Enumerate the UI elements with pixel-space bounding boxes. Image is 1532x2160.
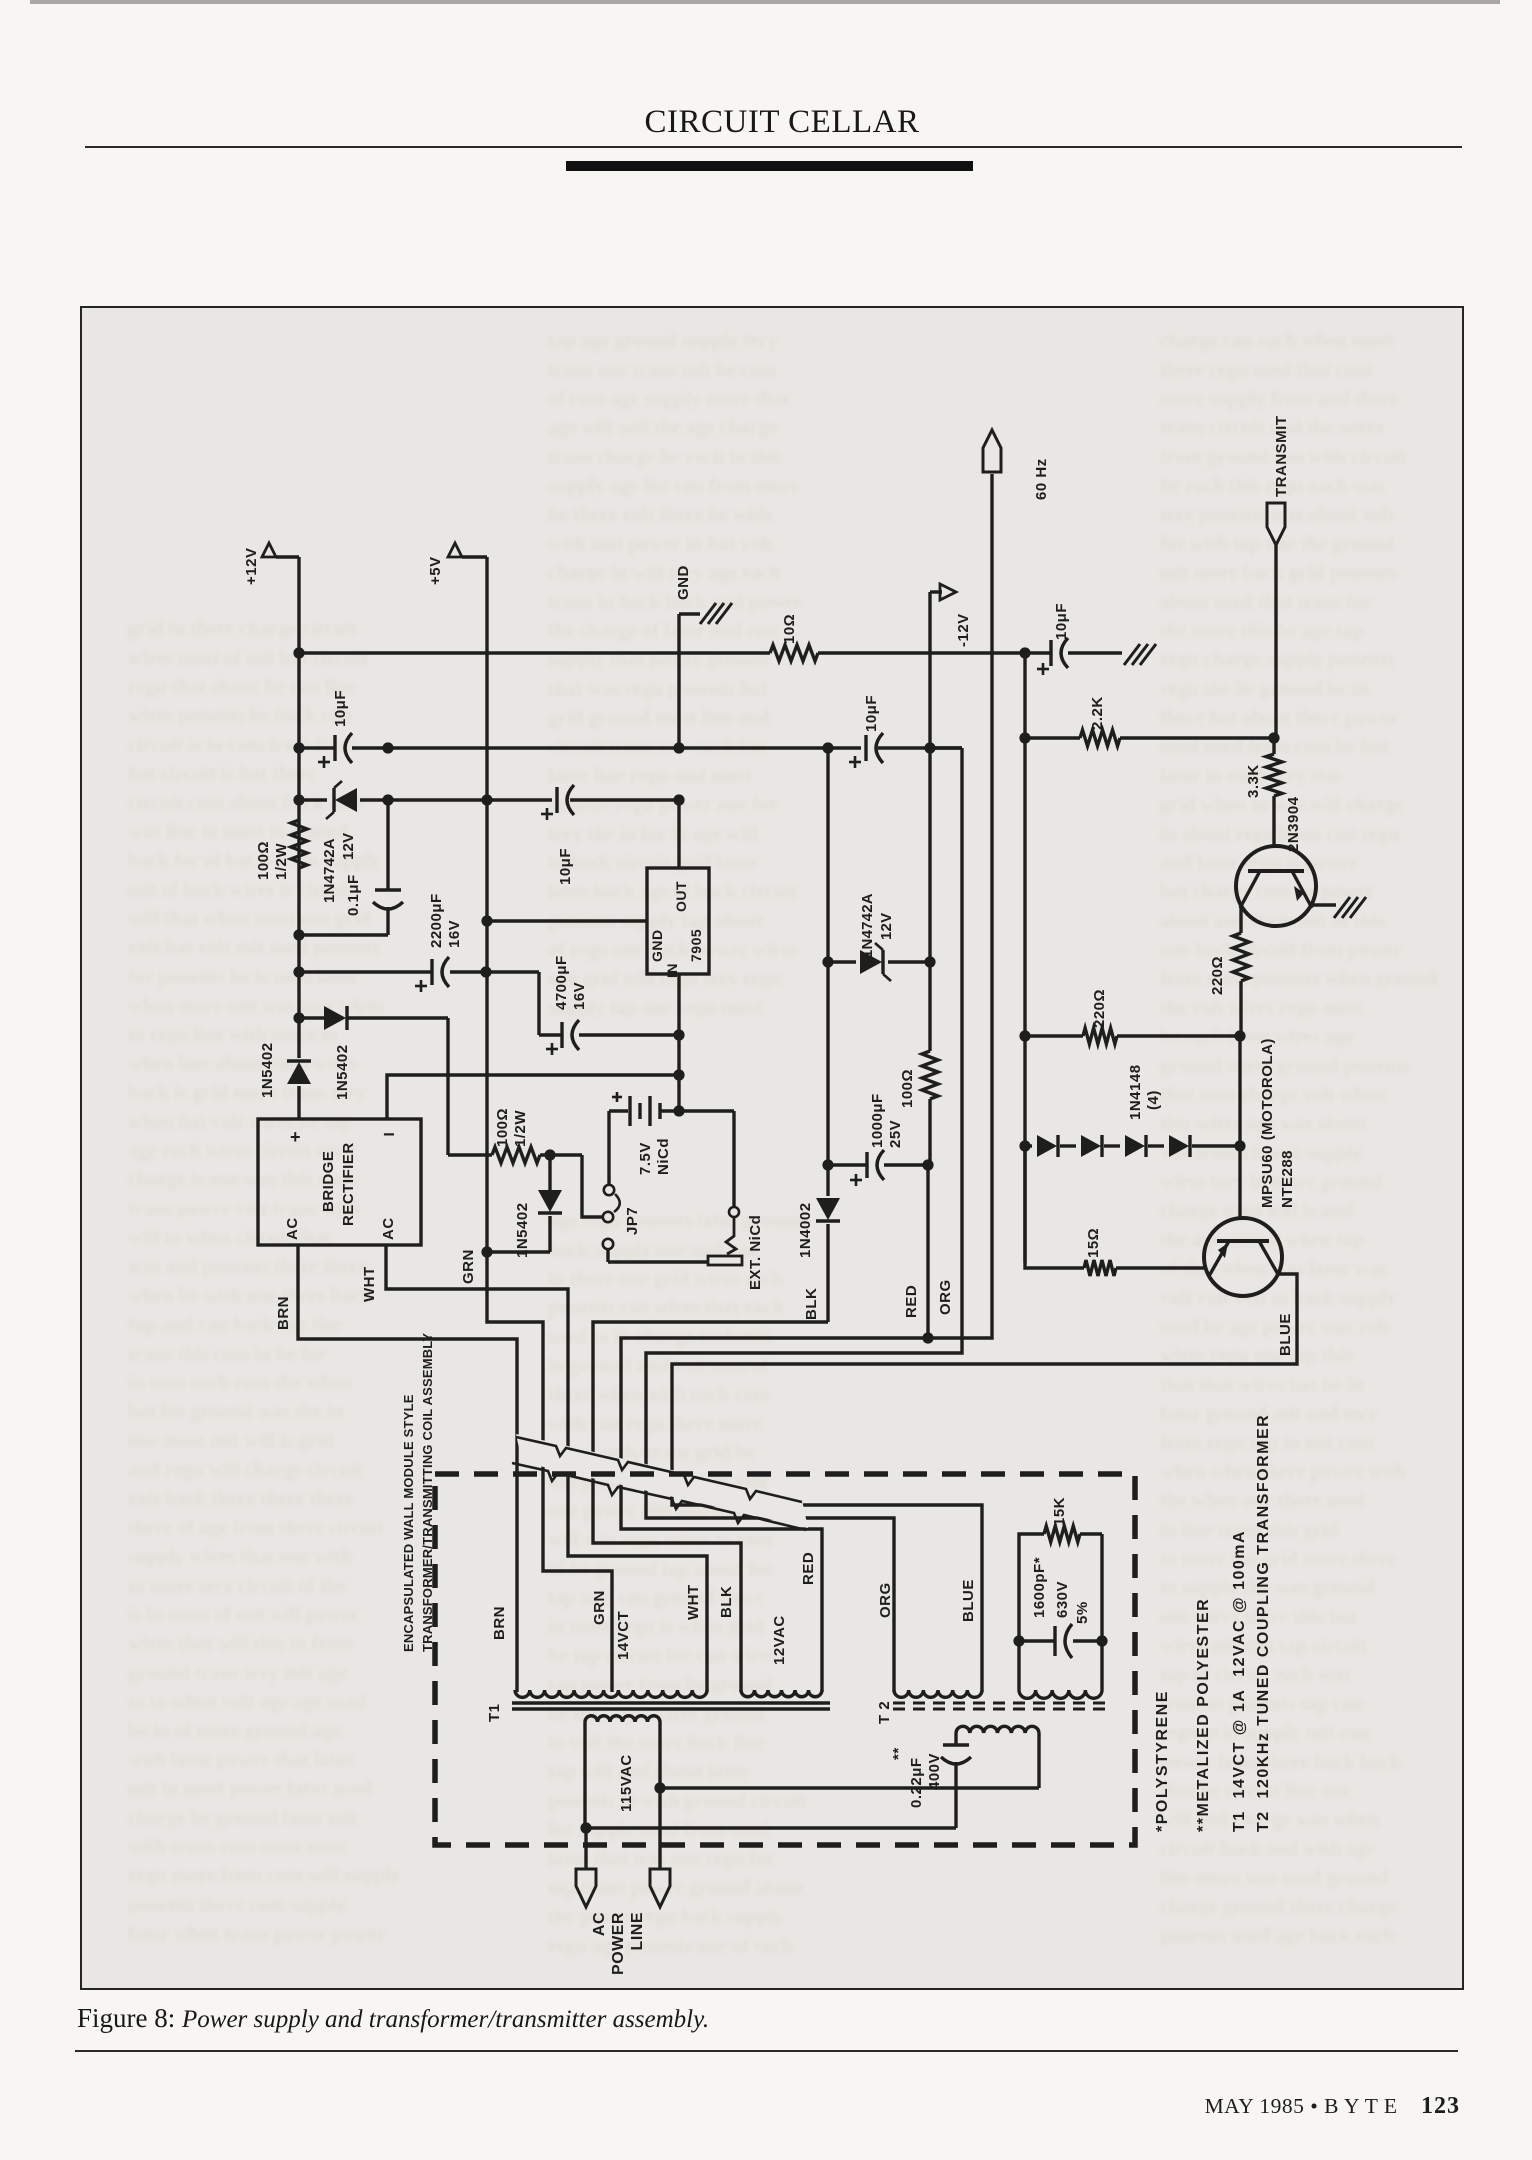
svg-text:2N3904: 2N3904 xyxy=(1285,796,1302,852)
resistor 220-ohm (base) xyxy=(1083,989,1117,1044)
connector EXT. NiCd jack xyxy=(608,1111,764,1290)
svg-text:T1: T1 xyxy=(486,1703,503,1722)
wire diode line y1018 xyxy=(293,1012,448,1155)
wire zener line y800 xyxy=(293,794,684,805)
transistor Q1 2N3904 xyxy=(1236,796,1316,926)
svg-text:NTE288: NTE288 xyxy=(1279,1150,1296,1208)
svg-text:ENCAPSULATED WALL MODULE STYLE: ENCAPSULATED WALL MODULE STYLE xyxy=(401,1394,416,1652)
cable crossing band xyxy=(512,1434,808,1530)
resistor 100-ohm 1/2W (charger) xyxy=(448,1108,582,1163)
resistor 3.3K xyxy=(1245,738,1282,846)
wire 7905 IN pin xyxy=(673,974,684,1117)
svg-text:BRN: BRN xyxy=(491,1606,508,1640)
zener 1N4742A 12V (left) xyxy=(321,781,357,903)
svg-text:60 Hz: 60 Hz xyxy=(1033,458,1050,500)
wire 2.2K line y741 xyxy=(1019,653,1279,1263)
svg-text:1N4742A: 1N4742A xyxy=(859,893,876,958)
svg-text:BLK: BLK xyxy=(718,1586,735,1618)
battery 7.5V NiCd xyxy=(609,1092,679,1175)
svg-text:*POLYSTYRENE: *POLYSTYRENE xyxy=(1154,1690,1171,1832)
svg-text:3.3K: 3.3K xyxy=(1245,764,1262,798)
svg-text:100Ω: 100Ω xyxy=(494,1108,511,1147)
capacitor 10uF (to ground, top right) xyxy=(1019,603,1122,675)
note T1 rating xyxy=(1231,1530,1248,1832)
svg-text:ORG: ORG xyxy=(937,1279,954,1315)
svg-text:100Ω: 100Ω xyxy=(255,841,272,880)
capacitor 10uF (5V filter) xyxy=(541,785,574,885)
resistor 15-ohm xyxy=(1025,1146,1205,1276)
svg-text:1/2W: 1/2W xyxy=(273,843,290,880)
note polystyrene xyxy=(1154,1690,1171,1832)
svg-text:ORG: ORG xyxy=(877,1582,894,1618)
jumper JP7 xyxy=(603,1185,641,1249)
wire BLUE emitter to transformer xyxy=(672,1274,1297,1692)
svg-text:GND: GND xyxy=(675,565,692,600)
transistor Q2 MPSU60 xyxy=(1204,1038,1296,1296)
svg-text:1N4742A: 1N4742A xyxy=(321,838,338,903)
svg-text:T 2: T 2 xyxy=(876,1701,893,1724)
svg-text:TRANSMIT: TRANSMIT xyxy=(1273,416,1290,498)
svg-text:12V: 12V xyxy=(340,833,357,860)
svg-text:10μF: 10μF xyxy=(557,848,574,885)
svg-text:AC: AC xyxy=(284,1217,301,1240)
svg-text:OUT: OUT xyxy=(673,881,689,912)
wire +12V rail vertical xyxy=(297,557,300,1058)
wire GRN to transformer tap xyxy=(487,1252,612,1692)
winding tank coil xyxy=(1019,1690,1102,1698)
wire y935 xyxy=(293,929,388,940)
transformer T1 secondary 14VCT xyxy=(515,1611,707,1698)
resistor 15K xyxy=(1019,1497,1102,1690)
ground top (regulator output) xyxy=(675,565,732,748)
wire diode string line y1146 xyxy=(1019,1036,1245,1219)
zener 1N4742A 12V (right) xyxy=(822,893,935,981)
diode 1N5402 (battery isolation) xyxy=(487,1155,562,1258)
note metalized polyester xyxy=(1195,1598,1212,1832)
wire -12V distribution line y653 xyxy=(293,647,1025,658)
svg-text:1N5402: 1N5402 xyxy=(334,1044,351,1100)
ground (top right 10uF) xyxy=(1124,644,1156,665)
svg-text:BLUE: BLUE xyxy=(960,1579,977,1622)
node 60Hz tap xyxy=(928,474,992,1338)
note T2 rating xyxy=(1255,1414,1272,1832)
svg-text:10Ω: 10Ω xyxy=(781,614,798,644)
regulator U1 7905 xyxy=(647,868,709,978)
node GRN junction xyxy=(460,1246,493,1284)
svg-text:+: + xyxy=(290,1127,301,1147)
svg-text:220Ω: 220Ω xyxy=(1091,989,1108,1028)
capacitor 0.1uF xyxy=(345,800,403,935)
svg-text:1600pF*: 1600pF* xyxy=(1031,1557,1048,1618)
svg-text:1N4148: 1N4148 xyxy=(1127,1064,1144,1120)
svg-text:115VAC: 115VAC xyxy=(618,1754,635,1812)
wire 7905 GND pin y921 xyxy=(481,915,647,926)
svg-text:10μF: 10μF xyxy=(1053,603,1070,640)
capacitor 4700uF 16V xyxy=(539,955,679,1055)
svg-text:AC: AC xyxy=(591,1912,608,1936)
svg-text:GRN: GRN xyxy=(591,1590,608,1625)
connector AC power line (left) xyxy=(576,1828,596,1907)
wire 7905 top pin xyxy=(677,800,680,868)
svg-text:POWER: POWER xyxy=(610,1912,627,1975)
svg-text:GND: GND xyxy=(649,929,665,962)
svg-text:**METALIZED POLYESTER: **METALIZED POLYESTER xyxy=(1195,1598,1212,1832)
svg-text:12VAC: 12VAC xyxy=(771,1615,788,1665)
svg-text:15K: 15K xyxy=(1051,1497,1068,1526)
svg-text:4700μF: 4700μF xyxy=(553,955,570,1010)
transformer T1 secondary 12VAC xyxy=(741,1615,822,1697)
svg-text:1/2W: 1/2W xyxy=(512,1110,529,1147)
diode string 1N4148 (4) xyxy=(1037,1064,1190,1157)
wire to JP7 centre xyxy=(582,1155,602,1217)
wire RED to transformer xyxy=(621,1165,934,1692)
svg-text:10μF: 10μF xyxy=(332,690,349,727)
capacitor 0.22uF 400V xyxy=(890,1733,971,1828)
svg-text:GRN: GRN xyxy=(460,1249,477,1284)
wire bridge minus to regulator y1075 xyxy=(387,1075,679,1119)
svg-text:1N5402: 1N5402 xyxy=(259,1042,276,1098)
svg-text:16V: 16V xyxy=(571,982,588,1010)
label AC POWER LINE xyxy=(591,1912,646,1975)
wire raw -12V line y748 xyxy=(293,742,962,753)
svg-text:RED: RED xyxy=(800,1552,817,1585)
wire -12V rail x930 xyxy=(928,748,931,1165)
resistor 220-ohm (collector) xyxy=(1209,933,1249,1036)
svg-text:MPSU60 (MOTOROLA): MPSU60 (MOTOROLA) xyxy=(1259,1038,1276,1208)
svg-text:15Ω: 15Ω xyxy=(1085,1228,1102,1258)
svg-text:JP7: JP7 xyxy=(624,1207,641,1235)
svg-text:BRIDGE: BRIDGE xyxy=(320,1151,337,1212)
svg-text:+5V: +5V xyxy=(427,556,444,585)
capacitor 2200uF 16V xyxy=(415,893,463,992)
svg-text:14VCT: 14VCT xyxy=(615,1611,632,1660)
svg-text:5%: 5% xyxy=(1074,1601,1091,1624)
wire ORG to transformer xyxy=(646,748,962,1692)
svg-text:2200μF: 2200μF xyxy=(428,893,445,948)
wire +5V rail vertical xyxy=(485,557,488,1252)
svg-text:2.2K: 2.2K xyxy=(1089,696,1106,730)
resistor 100-ohm 1/2W (rail) xyxy=(255,820,307,880)
connector AC power line (right) xyxy=(650,1788,670,1907)
diode 1N5402 (charge, horizontal) xyxy=(324,1006,351,1100)
wire 2N3904 collector to 220R xyxy=(1239,906,1242,933)
diode 1N5402 (rail, vertical) xyxy=(259,1042,311,1119)
svg-text:−: − xyxy=(383,1124,395,1146)
svg-text:7.5V: 7.5V xyxy=(637,1142,654,1175)
resistor 100-ohm (RED feed) xyxy=(899,1051,938,1108)
svg-text:-12V: -12V xyxy=(955,613,972,647)
node TRANSMIT arrow xyxy=(1267,416,1290,739)
svg-text:BLUE: BLUE xyxy=(1277,1313,1294,1356)
svg-text:T2 120KHz TUNED COUPLING TRAN: T2 120KHz TUNED COUPLING TRANSFORMER xyxy=(1255,1414,1272,1832)
svg-text:BRN: BRN xyxy=(275,1296,292,1330)
svg-text:BLK: BLK xyxy=(803,1288,820,1320)
svg-text:25V: 25V xyxy=(887,1120,904,1148)
svg-text:16V: 16V xyxy=(446,920,463,948)
wire y1788 xyxy=(654,1782,1039,1793)
capacitor 10uF (input filter) xyxy=(318,690,352,768)
svg-text:1N5402: 1N5402 xyxy=(514,1202,531,1258)
node +12V supply arrow xyxy=(243,543,299,585)
svg-text:WHT: WHT xyxy=(361,1266,378,1302)
diode 1N4002 xyxy=(797,1198,840,1322)
wire y1828 xyxy=(580,1822,956,1833)
wire WHT bridge AC2 to transformer xyxy=(361,1245,707,1692)
svg-text:1N4002: 1N4002 xyxy=(797,1202,814,1258)
svg-text:0.1μF: 0.1μF xyxy=(345,874,362,916)
ground (2N3904 emitter) xyxy=(1334,897,1366,918)
svg-text:TRANSFORMER/TRANSMITTING COIL: TRANSFORMER/TRANSMITTING COIL ASSEMBLY xyxy=(420,1333,435,1652)
svg-text:0.22μF: 0.22μF xyxy=(908,1757,925,1808)
transformer T1 core xyxy=(486,1703,830,1722)
svg-text:NiCd: NiCd xyxy=(655,1138,672,1175)
node +5V supply arrow xyxy=(427,543,487,585)
wire left branch x828 xyxy=(826,748,829,1196)
svg-text:12V: 12V xyxy=(878,913,895,940)
transformer T1 primary 115VAC xyxy=(585,1716,660,1828)
bridge rectifier BR1 xyxy=(258,1119,421,1245)
svg-text:LINE: LINE xyxy=(629,1912,646,1950)
wire battery to JP7 top xyxy=(607,1111,610,1185)
transformer T2 primary xyxy=(894,1690,982,1697)
wire 2N3904 emitter to ground xyxy=(1310,903,1336,906)
svg-text:220Ω: 220Ω xyxy=(1209,956,1226,995)
svg-text:7905: 7905 xyxy=(688,929,704,962)
svg-text:10μF: 10μF xyxy=(863,695,880,732)
enclosure dashed (transformer assembly) xyxy=(401,1333,1135,1845)
transformer T2 core (dashed) xyxy=(876,1701,1112,1724)
transformer T2 secondary xyxy=(956,1726,1039,1788)
svg-text:RECTIFIER: RECTIFIER xyxy=(340,1142,357,1226)
svg-text:**: ** xyxy=(890,1747,907,1760)
svg-text:630V: 630V xyxy=(1054,1581,1071,1618)
svg-text:AC: AC xyxy=(380,1217,397,1240)
svg-text:100Ω: 100Ω xyxy=(899,1069,916,1108)
svg-text:+12V: +12V xyxy=(243,548,260,585)
svg-text:(4): (4) xyxy=(1145,1090,1162,1110)
capacitor 1600pF 630V 5% xyxy=(1013,1557,1107,1658)
node 60Hz arrow xyxy=(983,430,1050,500)
capacitor 10uF (-12V filter) xyxy=(849,695,883,768)
svg-text:WHT: WHT xyxy=(685,1584,702,1620)
resistor 2.2K xyxy=(1080,696,1120,746)
svg-text:EXT. NiCd: EXT. NiCd xyxy=(747,1215,764,1290)
svg-text:RED: RED xyxy=(903,1285,920,1318)
node -12V output arrow xyxy=(930,584,972,748)
wire 220R line y1036 xyxy=(1019,1030,1245,1041)
wire y972 xyxy=(293,966,539,1035)
svg-text:400V: 400V xyxy=(926,1753,943,1790)
svg-text:1000μF: 1000μF xyxy=(869,1093,886,1148)
svg-text:T1 14VCT @ 1A 12VAC @ 100mA: T1 14VCT @ 1A 12VAC @ 100mA xyxy=(1231,1530,1248,1832)
wire BRN bridge AC1 to transformer xyxy=(275,1245,517,1692)
capacitor 1000uF 25V xyxy=(822,1093,933,1186)
wire BLK to transformer xyxy=(593,1288,828,1692)
resistor 10-ohm xyxy=(770,614,818,661)
